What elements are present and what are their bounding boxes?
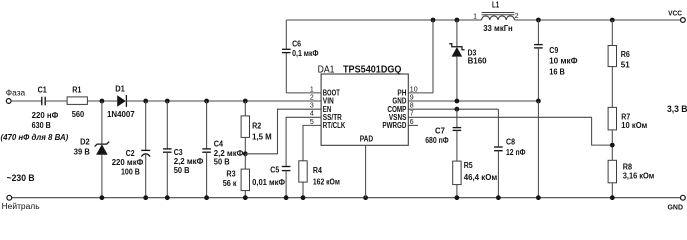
svg-text:D2: D2 xyxy=(80,138,90,147)
junction: bottom rail / R8 xyxy=(610,195,615,200)
junction: EN divider node xyxy=(243,151,248,156)
terminal: GND output xyxy=(681,195,686,200)
svg-text:C6: C6 xyxy=(292,39,301,48)
junction: bottom rail / R5 xyxy=(455,195,460,200)
svg-text:Нейтраль: Нейтраль xyxy=(2,202,40,211)
wire: pin 1 BOOT to C6 xyxy=(286,92,321,94)
svg-text:RT/CLK: RT/CLK xyxy=(323,121,346,130)
junction: GND line / D3 anode xyxy=(455,99,460,104)
wire: R6 to R7 xyxy=(611,67,613,108)
svg-text:3: 3 xyxy=(310,103,314,110)
svg-text:TPS5401DGQ: TPS5401DGQ xyxy=(343,64,402,75)
wire: R2 to EN node xyxy=(244,137,246,153)
svg-text:1N4007: 1N4007 xyxy=(107,110,135,119)
svg-text:0,01 мкФ: 0,01 мкФ xyxy=(252,178,285,187)
resistor R8 3,16 кОм xyxy=(608,160,616,183)
wire: C6 to PH top wire xyxy=(285,20,287,49)
svg-text:9: 9 xyxy=(410,94,414,101)
wire: R1 to D1 xyxy=(87,100,117,102)
svg-text:6: 6 xyxy=(410,119,414,126)
IC DA1 TPS5401DGQ body xyxy=(321,74,408,145)
svg-text:B160: B160 xyxy=(468,56,487,65)
capacitor C5 0,01 мкФ xyxy=(282,166,291,168)
terminal: VCC output xyxy=(681,18,686,23)
svg-text:R4: R4 xyxy=(313,166,322,175)
junction: rail / C2 xyxy=(143,99,148,104)
wire: R7 to R8 xyxy=(611,130,613,160)
wire: PH top wire to L1 xyxy=(286,19,481,21)
svg-text:680 пФ: 680 пФ xyxy=(425,136,449,145)
junction: bottom rail / GND drop xyxy=(536,195,541,200)
capacitor C8 12 пФ xyxy=(497,109,499,147)
svg-text:12 пФ: 12 пФ xyxy=(506,148,526,157)
schottky diode D3 B160 (catch diode) xyxy=(456,20,458,47)
svg-text:C4: C4 xyxy=(214,139,224,148)
wire: pin 6 PWRGD stub (n.c.) xyxy=(408,124,418,126)
svg-text:R3: R3 xyxy=(226,169,236,178)
svg-text:VCC: VCC xyxy=(668,9,682,18)
svg-text:C2: C2 xyxy=(126,149,135,158)
svg-text:46,4 кОм: 46,4 кОм xyxy=(464,173,498,182)
junction: rail / C3 xyxy=(165,99,170,104)
svg-text:GND: GND xyxy=(668,202,684,211)
wire: pin 9 GND line xyxy=(408,100,538,102)
svg-text:1: 1 xyxy=(473,13,477,20)
svg-text:C7: C7 xyxy=(435,126,445,135)
svg-text:10 мкФ: 10 мкФ xyxy=(549,56,578,65)
resistor R1 560 (series) xyxy=(67,97,87,105)
svg-text:50 В: 50 В xyxy=(174,166,190,175)
svg-text:C9: C9 xyxy=(549,46,558,55)
junction: bottom rail / C3 xyxy=(165,195,170,200)
wire: D1 to VIN pin 2 of DA1 xyxy=(126,100,321,102)
svg-text:2,2 мкФ: 2,2 мкФ xyxy=(174,157,204,166)
svg-text:220 нФ: 220 нФ xyxy=(32,111,59,120)
svg-text:630 В: 630 В xyxy=(32,121,51,130)
svg-text:220 мкФ: 220 мкФ xyxy=(112,158,144,167)
resistor R7 10 кОм xyxy=(608,107,616,129)
svg-text:PWRGD: PWRGD xyxy=(382,121,406,130)
wire: EN node to pin 3 EN xyxy=(245,109,321,154)
wire: pin 8 COMP line xyxy=(408,108,498,110)
svg-text:10 кОм: 10 кОм xyxy=(621,121,647,130)
resistor R4 162 кОм xyxy=(299,161,307,182)
svg-text:1,5 М: 1,5 М xyxy=(252,133,272,142)
junction: top wire / D3 xyxy=(455,18,460,23)
junction: feedback node R7/R8/VSNS xyxy=(610,143,615,148)
svg-text:R6: R6 xyxy=(621,50,631,59)
resistor R6 51 xyxy=(611,20,613,46)
wire: GND drop to bottom rail xyxy=(537,101,539,198)
svg-text:4: 4 xyxy=(310,111,314,118)
junction: bottom rail / C8 xyxy=(496,195,501,200)
zener diode D2 39 В xyxy=(101,101,103,144)
junction: output / C9 xyxy=(536,18,541,23)
svg-text:(470 нФ для 8 ВА): (470 нФ для 8 ВА) xyxy=(1,133,69,142)
wire: C1 to R1 xyxy=(45,100,67,102)
capacitor C6 0,1 мкФ (bootstrap) xyxy=(282,48,291,50)
svg-text:162 кОм: 162 кОм xyxy=(313,178,340,187)
svg-text:2: 2 xyxy=(515,13,519,20)
capacitor C2 220 мкФ 100 В (electrolytic) xyxy=(145,101,147,150)
junction: COMP / C7 xyxy=(455,107,460,112)
junction: bottom rail / D2 xyxy=(100,195,105,200)
svg-text:0,1 мкФ: 0,1 мкФ xyxy=(292,49,319,58)
svg-text:3,16 кОм: 3,16 кОм xyxy=(623,172,655,181)
svg-text:10: 10 xyxy=(410,86,418,93)
svg-text:C3: C3 xyxy=(174,148,183,157)
svg-text:R5: R5 xyxy=(464,161,473,170)
capacitor C9 10 мкФ 16 В (output) xyxy=(537,20,539,45)
diode D1 1N4007 (series) xyxy=(117,95,126,107)
svg-text:51: 51 xyxy=(621,61,630,70)
svg-text:50 В: 50 В xyxy=(214,157,230,166)
svg-text:PAD: PAD xyxy=(360,135,374,144)
wire: pin 7 VSNS to feedback node xyxy=(408,117,612,145)
capacitor C7 680 пФ xyxy=(456,109,458,127)
svg-text:DA1: DA1 xyxy=(318,64,335,75)
junction: rail / D2 branch xyxy=(100,99,105,104)
junction: bottom rail / C2 xyxy=(143,195,148,200)
wire: pin 4 SS/TR to C5 xyxy=(286,117,321,166)
svg-text:~230 В: ~230 В xyxy=(7,173,35,183)
svg-text:560: 560 xyxy=(72,110,85,119)
svg-text:7: 7 xyxy=(410,111,414,118)
svg-text:D1: D1 xyxy=(115,84,125,93)
svg-text:1: 1 xyxy=(310,86,314,93)
inductor L1 33 мкГн xyxy=(482,16,515,20)
capacitor C1 220 нФ 630 В (X-cap series) xyxy=(41,97,43,106)
resistor R3 56 к (EN divider bottom) xyxy=(244,154,246,169)
terminal: Нейтраль (neutral input) xyxy=(7,195,12,200)
terminal: Фаза (phase input) xyxy=(6,99,11,104)
capacitor C4 2,2 мкФ 50 В xyxy=(206,101,208,149)
wire: pin 5 RT/CLK to R4 xyxy=(303,125,321,160)
svg-text:C1: C1 xyxy=(38,85,48,94)
svg-text:R1: R1 xyxy=(72,85,82,94)
svg-text:C8: C8 xyxy=(506,138,515,147)
svg-text:L1: L1 xyxy=(492,0,500,9)
junction: bottom rail / R3 xyxy=(243,195,248,200)
junction: bottom rail / C5 xyxy=(284,195,289,200)
svg-text:56 к: 56 к xyxy=(223,179,238,188)
wire: pin 10 PH riser xyxy=(408,92,433,94)
svg-text:33 мкГн: 33 мкГн xyxy=(483,24,513,33)
junction: bottom rail / R4 xyxy=(301,195,306,200)
junction: GND line / C9 xyxy=(536,99,541,104)
resistor R2 1,5 М (EN divider top) xyxy=(244,101,246,116)
svg-text:R2: R2 xyxy=(252,121,262,130)
junction: bottom rail / PAD xyxy=(363,195,368,200)
svg-text:39 В: 39 В xyxy=(74,147,90,156)
junction: top wire / PH riser xyxy=(431,18,436,23)
wire: PAD to bottom rail xyxy=(365,145,367,197)
svg-text:Фаза: Фаза xyxy=(6,89,26,98)
junction: rail / R2 xyxy=(243,99,248,104)
svg-text:5: 5 xyxy=(310,119,314,126)
svg-text:8: 8 xyxy=(410,103,414,110)
wire: L1 to VCC xyxy=(514,19,680,21)
junction: rail / C4 xyxy=(204,99,209,104)
svg-text:16 В: 16 В xyxy=(549,67,565,76)
junction: bottom rail / C4 xyxy=(204,195,209,200)
svg-text:2: 2 xyxy=(310,94,314,101)
svg-text:3,3 В: 3,3 В xyxy=(667,104,687,114)
svg-text:R8: R8 xyxy=(623,163,633,172)
wire: bottom neutral/GND rail xyxy=(12,197,681,199)
svg-text:100 В: 100 В xyxy=(121,167,140,176)
resistor R5 46,4 кОм xyxy=(453,161,461,185)
svg-text:C5: C5 xyxy=(270,165,279,174)
junction: output / R6 xyxy=(610,18,615,23)
capacitor C3 2,2 мкФ 50 В xyxy=(166,101,168,149)
wire: Фаза to C1 xyxy=(11,100,42,102)
